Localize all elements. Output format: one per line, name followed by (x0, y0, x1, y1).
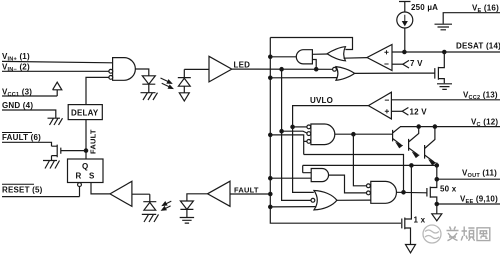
bubble DELAY input (109, 76, 113, 80)
wire FAULT amp input (230, 193, 270, 195)
comparator UVLO (368, 92, 391, 119)
amp FAULT driver (208, 181, 231, 206)
LED fault emitter (180, 201, 193, 217)
wire OR out to big AND (337, 199, 371, 201)
transistor Q2 (409, 127, 419, 155)
wire photodiode to amp (184, 68, 209, 70)
svg-text:UVLO: UVLO (310, 96, 333, 105)
chassis ground GND4 (48, 118, 63, 125)
svg-text:7 V: 7 V (410, 59, 423, 68)
svg-text:FAULT: FAULT (234, 185, 259, 194)
light arrows optocoupler bottom (162, 201, 172, 210)
node dot bus smallAND (269, 177, 272, 180)
wire fault bus vertical (270, 38, 401, 224)
wire AND out (270, 56, 296, 58)
bubble bigAND input1 (367, 184, 371, 188)
svg-text:12 V: 12 V (410, 108, 428, 117)
node dot DESAT mosfet (443, 50, 446, 53)
node dot UVLO branch (291, 125, 294, 128)
arrow 1x source down (406, 245, 416, 253)
svg-text:VIN− (2): VIN− (2) (2, 63, 30, 74)
wire UVLO output (293, 106, 369, 193)
wire FAULT6 line (2, 142, 52, 146)
svg-text:LED: LED (234, 61, 251, 70)
svg-text:GND (4): GND (4) (2, 101, 33, 110)
wire fault AND bottom input (312, 60, 316, 70)
transistor Q3 (425, 127, 435, 162)
wire VEE pin line (437, 203, 500, 205)
wire VIN+ line (2, 61, 113, 62)
wire bus to bubble3 path (270, 135, 307, 155)
ground fault LED 3-bar (180, 218, 194, 224)
wire amp to S input (91, 183, 110, 194)
node dot bus OR input (269, 76, 272, 79)
bubble bigAND input2 (367, 191, 371, 195)
logic big AND gate (371, 181, 397, 203)
node dot bus fault amp (269, 192, 272, 195)
svg-text:VIN+ (1): VIN+ (1) (2, 52, 30, 63)
wire bigAND out (397, 191, 427, 194)
logic 3-bubble AND gate (311, 124, 335, 145)
box DELAY (68, 105, 102, 120)
node dot LED to fault AND (315, 68, 318, 71)
svg-text:1 x: 1 x (414, 216, 426, 225)
transistor Q1 (393, 127, 401, 145)
bubble output OR mid input (311, 198, 315, 202)
svg-text:250 µA: 250 µA (411, 3, 438, 12)
node dot VOUT (435, 178, 438, 181)
wire Q3 emitter to VOUT (436, 163, 438, 180)
amp fault receiver (110, 181, 132, 206)
arrow VEE down (432, 204, 442, 221)
node dot LED bubble2 (280, 130, 283, 133)
wire VOUT pin line (437, 178, 500, 180)
chassis ground below LED (141, 93, 158, 100)
bubble and3 input3 (307, 140, 311, 144)
wire small AND out to bigAND bubble2 (329, 175, 367, 193)
wire amp to fault LED (187, 194, 208, 201)
transistor 50x MOSFET (427, 179, 437, 204)
wire OR bottom input (270, 206, 316, 208)
chassis ground below FAULT MOSFET (43, 161, 60, 169)
node dot feedback 1x (410, 164, 413, 167)
wire VC pin line (400, 126, 500, 128)
wire 7V ref (392, 63, 403, 65)
wire OR bottom input to comparator (344, 57, 368, 60)
wire RESET line (2, 196, 80, 198)
wire DESAT pin line (392, 51, 500, 53)
transistor 1x MOSFET (402, 165, 412, 244)
wire feedback A (304, 155, 404, 193)
comparator DESAT (367, 45, 392, 71)
arrow 7V reference (403, 60, 409, 68)
flip-flop RS latch box (68, 159, 104, 183)
arrow down below photodiode (179, 86, 189, 101)
node dot Q3 collector (433, 125, 436, 128)
node dot LED branch (280, 68, 283, 71)
svg-text:Q: Q (82, 162, 88, 171)
logic desat-control OR (336, 67, 355, 81)
wire OR bottom input from bus (270, 77, 337, 79)
svg-text:S: S (89, 172, 95, 181)
logic output OR gate (314, 191, 337, 210)
node dot bus OR bottom (269, 205, 272, 208)
wire Vout feedback B (303, 165, 437, 172)
node dot feedback vout (435, 164, 438, 167)
LED input-side emitter (142, 76, 155, 93)
svg-text:VE (16): VE (16) (472, 4, 499, 15)
node dot Q2 collector (417, 125, 420, 128)
wire VCC2 pin line (391, 99, 500, 101)
svg-text:RESET (5): RESET (5) (2, 186, 43, 195)
transistor DESAT MOSFET (355, 52, 445, 83)
light arrows optocoupler top (161, 78, 173, 89)
logic small AND gate (311, 169, 328, 182)
node dot bigAND out (402, 191, 405, 194)
node dot bus to and3 (269, 133, 272, 136)
wire LED to bubble2 (282, 131, 307, 133)
node dot VEE (435, 202, 438, 205)
wire AND out to LED (135, 69, 148, 76)
svg-text:VC (12): VC (12) (471, 118, 498, 129)
wire bus to small AND input (270, 177, 311, 179)
svg-text:VCC2 (13): VCC2 (13) (463, 91, 498, 102)
wire LED signal line (232, 68, 334, 70)
wire VIN- line (2, 70, 109, 72)
bubble OR led input (333, 67, 337, 71)
ground VE 3-bar (435, 24, 453, 30)
logic fault AND mirrored (296, 50, 312, 64)
chassis ground below photodiode (142, 214, 159, 222)
node dot DESAT current source (403, 50, 406, 53)
wire R input with bubble (79, 186, 81, 196)
current source 250uA (399, 2, 411, 13)
arrow 12V reference (402, 108, 408, 116)
wire UVLO to bubble1 (293, 126, 307, 128)
watermark text 变频圈 drawn as strokes (447, 227, 490, 241)
svg-text:DELAY: DELAY (71, 109, 99, 118)
watermark logo circle (423, 225, 441, 243)
bubble and3 input1 (307, 125, 311, 129)
svg-text:DESAT (14): DESAT (14) (456, 42, 500, 51)
wire VCC1 line (2, 95, 57, 97)
wire LED branch vertical (282, 69, 311, 200)
wire photodiode to S amp (132, 193, 150, 195)
svg-text:VOUT (11): VOUT (11) (462, 169, 497, 180)
logic latch OR mirrored (327, 47, 345, 61)
wire VE pin (443, 13, 500, 24)
svg-text:VCC1 (3): VCC1 (3) (2, 88, 32, 99)
svg-text:VEE (9,10): VEE (9,10) (460, 195, 498, 206)
bubble and3 input2 (307, 132, 311, 136)
svg-text:FAULT (6): FAULT (6) (2, 133, 41, 142)
wire fault AND top input (312, 53, 327, 55)
logic input AND gate U1 (113, 58, 136, 81)
wire GND line (2, 110, 56, 118)
node dot bus AND out (269, 55, 272, 58)
bubble VIN- input (109, 69, 113, 73)
wire Q output up (85, 120, 87, 159)
transistor FAULT open-drain MOSFET (52, 145, 87, 161)
photodiode fault input-side (143, 194, 156, 210)
ground DESAT 3-bar (437, 84, 452, 90)
svg-text:R: R (76, 172, 82, 181)
node dot drive branch (352, 133, 355, 136)
svg-text:FAULT: FAULT (89, 129, 98, 154)
svg-text:50 x: 50 x (440, 185, 457, 194)
amp LED detector buffer (209, 56, 232, 82)
power arrow VCC1 (53, 82, 62, 96)
wire latch feedback top (270, 38, 352, 50)
wire DELAY top to AND bubble (86, 77, 109, 104)
wire 12V ref (391, 110, 402, 112)
wire and3 output to Q1 base (335, 133, 392, 135)
photodiode output-side top (178, 69, 191, 86)
wire drive to bigAND bubble1 (353, 134, 366, 186)
